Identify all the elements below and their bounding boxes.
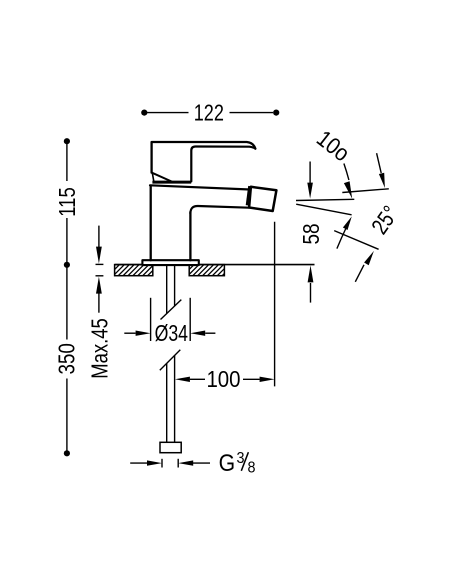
svg-text:G: G — [219, 450, 236, 477]
svg-text:8: 8 — [248, 460, 256, 477]
svg-text:Max.45: Max.45 — [86, 318, 112, 379]
svg-text:115: 115 — [54, 187, 80, 217]
svg-text:100: 100 — [206, 366, 240, 392]
svg-text:122: 122 — [194, 100, 224, 126]
svg-text:58: 58 — [298, 223, 324, 244]
svg-text:350: 350 — [54, 343, 80, 374]
svg-text:Ø34: Ø34 — [155, 320, 189, 346]
